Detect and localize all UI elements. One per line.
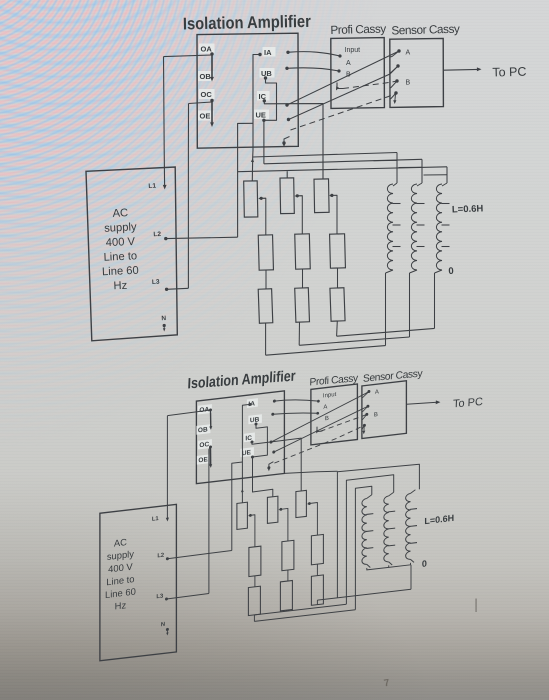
svg-text:L3: L3: [152, 279, 160, 286]
svg-text:Line to: Line to: [106, 573, 134, 587]
svg-text:B: B: [374, 412, 378, 418]
svg-text:UB: UB: [261, 69, 272, 78]
svg-text:L=0.6H: L=0.6H: [452, 203, 484, 215]
svg-text:7: 7: [383, 678, 391, 690]
svg-text:N: N: [161, 622, 165, 628]
svg-text:OE: OE: [200, 112, 211, 121]
svg-text:UB: UB: [250, 416, 260, 424]
svg-text:OB: OB: [200, 72, 212, 81]
svg-text:L=0.6H: L=0.6H: [424, 513, 454, 526]
svg-text:L1: L1: [152, 516, 160, 523]
svg-text:Isolation Amplifier: Isolation Amplifier: [183, 12, 312, 34]
svg-text:To PC: To PC: [453, 396, 483, 410]
svg-text:IA: IA: [264, 48, 272, 57]
svg-text:A: A: [406, 50, 411, 57]
svg-text:A: A: [323, 404, 327, 410]
svg-text:L2: L2: [153, 231, 161, 238]
svg-text:OC: OC: [201, 90, 213, 99]
svg-text:A: A: [375, 389, 379, 395]
svg-text:supply: supply: [104, 221, 137, 234]
svg-text:B: B: [325, 416, 329, 422]
svg-text:Input: Input: [345, 47, 361, 54]
svg-text:To PC: To PC: [492, 65, 526, 80]
svg-text:L2: L2: [157, 553, 164, 560]
svg-text:OB: OB: [198, 426, 208, 434]
svg-text:Isolation Amplifier: Isolation Amplifier: [187, 368, 296, 393]
svg-text:B: B: [346, 72, 351, 79]
svg-text:N: N: [161, 315, 166, 322]
svg-text:A: A: [346, 60, 351, 67]
svg-text:Sensor Cassy: Sensor Cassy: [391, 22, 460, 38]
svg-text:400 V: 400 V: [108, 561, 133, 575]
svg-text:400 V: 400 V: [105, 236, 135, 249]
svg-text:AC: AC: [114, 536, 127, 548]
svg-text:OA: OA: [201, 45, 213, 54]
svg-text:supply: supply: [107, 548, 134, 562]
svg-text:Hz: Hz: [115, 599, 127, 611]
svg-text:L3: L3: [156, 593, 164, 600]
svg-text:AC: AC: [112, 207, 128, 220]
svg-text:Line 60: Line 60: [105, 586, 136, 601]
svg-text:OE: OE: [198, 456, 208, 464]
svg-text:Input: Input: [323, 392, 337, 400]
svg-text:Line 60: Line 60: [102, 265, 139, 279]
svg-text:B: B: [406, 80, 411, 87]
svg-text:0: 0: [448, 266, 454, 277]
svg-text:0: 0: [422, 558, 427, 569]
svg-text:Line to: Line to: [103, 250, 137, 263]
svg-text:OC: OC: [199, 441, 209, 449]
svg-text:Hz: Hz: [113, 280, 128, 293]
svg-text:UE: UE: [256, 111, 266, 120]
svg-text:Profi Cassy: Profi Cassy: [330, 22, 386, 37]
svg-text:UE: UE: [242, 449, 252, 457]
svg-text:L1: L1: [148, 183, 156, 190]
